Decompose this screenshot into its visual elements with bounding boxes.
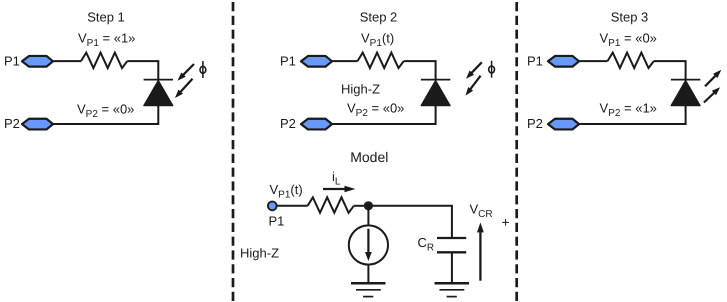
svg-text:High-Z: High-Z [341, 82, 380, 97]
dashed divider 2 [515, 2, 518, 302]
wire resistor to diode cathode (step 1) [127, 61, 158, 80]
svg-text:High-Z: High-Z [240, 245, 279, 260]
svg-text:+: + [502, 214, 510, 230]
wire P1 pin to resistor (step 2) [332, 60, 358, 62]
dashed divider 1 [232, 2, 235, 302]
pin P1 (step 1) [22, 56, 53, 67]
current arrow iL (model) [323, 186, 356, 193]
svg-text:Model: Model [350, 149, 388, 165]
terminal P1 (model) [268, 202, 277, 211]
svg-text:P1: P1 [280, 53, 296, 68]
photodiode D2 (step 2) [421, 80, 450, 106]
svg-text:P1: P1 [269, 214, 285, 229]
wire P2 pin to diode anode (step 2) [332, 106, 436, 124]
resistor (step 1) [81, 53, 127, 69]
svg-text:P2: P2 [4, 116, 20, 131]
svg-text:Step 3: Step 3 [611, 10, 649, 25]
svg-text:Step 2: Step 2 [360, 10, 398, 25]
pin P2 (step 3) [548, 119, 579, 130]
photon arrow 1 into diode (step 2) [466, 62, 482, 79]
capacitor CR (model) [437, 238, 466, 252]
wire capacitor to ground (model) [451, 253, 453, 283]
photodiode D1 (step 1) [144, 80, 173, 106]
wire resistor to diode cathode (step 2) [404, 61, 436, 80]
wire terminal to resistor (model) [277, 205, 308, 207]
resistor (step 2) [358, 53, 404, 69]
emission arrow 1 out of diode (step 3) [705, 70, 721, 87]
photon arrow 1 into diode (step 1) [178, 64, 195, 81]
photon arrow 2 into diode (step 1) [175, 79, 193, 98]
wire current source to ground (model) [367, 265, 369, 283]
resistor (step 3) [608, 53, 654, 69]
wire P1 pin to resistor (step 3) [579, 60, 608, 62]
voltage arrow VCR (model) [477, 222, 484, 280]
photon arrow 2 into diode (step 2) [466, 76, 481, 96]
svg-text:P2: P2 [280, 116, 296, 131]
label phi (step 1) [200, 61, 206, 78]
pin P1 (step 3) [548, 56, 579, 67]
ground 1 (under current source) [351, 283, 386, 296]
pin P2 (step 2) [301, 119, 332, 130]
wire junction to current source (model) [367, 206, 369, 226]
wire resistor to diode cathode (step 3) [654, 61, 686, 80]
wire P1 pin to resistor (step 1) [53, 60, 81, 62]
wire P2 pin to diode anode (step 3) [579, 106, 686, 124]
pin P1 (step 2) [301, 56, 332, 67]
pin P2 (step 1) [22, 119, 53, 130]
wire junction to capacitor (model) [368, 206, 452, 237]
current source (model) [349, 225, 388, 264]
label phi (step 2) [489, 61, 495, 78]
svg-text:P1: P1 [527, 53, 543, 68]
svg-text:P1: P1 [4, 53, 20, 68]
junction node (model) [364, 201, 373, 210]
wire resistor to junction (model) [354, 205, 369, 207]
emission arrow 2 out of diode (step 3) [704, 87, 720, 102]
LED D3 (step 3) [671, 80, 700, 106]
svg-text:P2: P2 [527, 116, 543, 131]
wire P2 pin to diode anode (step 1) [53, 106, 158, 124]
ground 2 (under capacitor) [435, 283, 470, 296]
svg-text:Step 1: Step 1 [87, 10, 125, 25]
resistor (model) [308, 197, 354, 213]
